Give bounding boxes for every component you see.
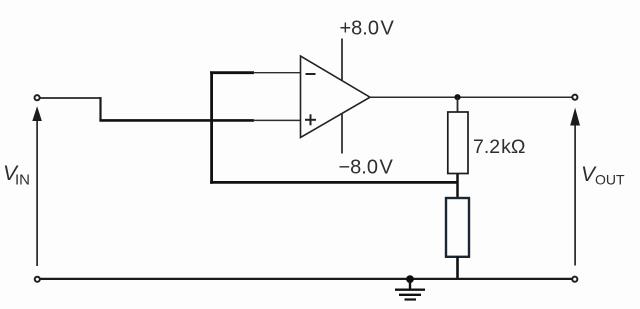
arrow V_OUT head xyxy=(570,108,580,126)
node ground junction dot xyxy=(406,275,414,283)
terminal output top-right xyxy=(572,95,577,100)
svg-text:IN: IN xyxy=(15,172,30,189)
wire input thick horizontal to noninverting side xyxy=(99,119,254,122)
svg-text:OUT: OUT xyxy=(595,172,625,188)
wire input vertical step xyxy=(99,97,101,120)
wire positive supply xyxy=(341,39,343,82)
wire R2 to ground rail xyxy=(456,257,459,280)
arrow V_IN line xyxy=(36,118,38,266)
svg-text:7.2kΩ: 7.2kΩ xyxy=(473,136,525,158)
terminal input top-left xyxy=(35,95,40,100)
wire input horizontal from terminal xyxy=(40,97,101,99)
ground symbol xyxy=(395,279,425,300)
arrow V_OUT line xyxy=(574,124,576,266)
wire R1 to R2 divider node xyxy=(456,174,459,199)
wire feedback top thick horizontal xyxy=(210,71,254,74)
wire feedback vertical xyxy=(210,71,213,183)
label V_OUT xyxy=(581,163,625,188)
wire bottom rail xyxy=(41,278,572,280)
terminal bottom-left xyxy=(35,277,40,282)
label V_IN xyxy=(3,162,30,189)
op-amp U1 triangle xyxy=(301,56,371,138)
wire negative supply xyxy=(341,113,343,153)
wire thin to noninverting input xyxy=(253,119,301,121)
node output junction dot xyxy=(454,94,460,100)
terminal output bottom-right xyxy=(572,277,577,282)
wire junction to resistor R1 xyxy=(457,97,459,112)
op-amp inverting minus symbol xyxy=(306,73,316,75)
wire thin to inverting input xyxy=(253,72,301,74)
svg-text:+8.0V: +8.0V xyxy=(340,18,395,40)
svg-text:−8.0V: −8.0V xyxy=(339,156,394,178)
resistor R1 body xyxy=(448,112,468,174)
op-amp noninverting plus symbol xyxy=(305,114,316,125)
wire output rail xyxy=(370,96,572,98)
wire feedback bottom horizontal to divider node xyxy=(210,181,458,184)
resistor R2 body xyxy=(446,198,469,257)
arrow V_IN head xyxy=(32,106,42,121)
